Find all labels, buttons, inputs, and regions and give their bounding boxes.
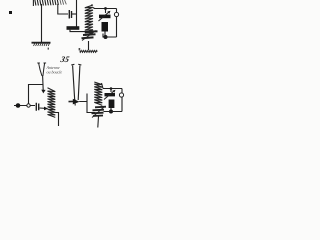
wire: coil L4 down to bottom edge	[97, 117, 100, 128]
wire: bottom of box fig1	[103, 34, 117, 38]
wire: coil L1 right end to capacitor C1	[58, 4, 68, 14]
wire: top of box fig2	[103, 88, 122, 90]
wire: bottom of box fig2	[104, 111, 123, 113]
wire: C2 to tap	[70, 30, 85, 32]
junction dot top2	[110, 87, 113, 90]
wire: branch left and down	[29, 85, 44, 104]
wire: top of box fig1	[94, 8, 117, 10]
wire: antenna A1 down with tap arrow	[42, 76, 45, 91]
wire: block to bottom	[104, 32, 106, 37]
terminal circle 2	[119, 93, 123, 97]
terminal circle (open)	[27, 104, 30, 107]
wire: antenna A2 stub	[74, 99, 76, 106]
wire: coil L3 to bottom	[55, 113, 59, 127]
wire: right side of box fig1	[116, 9, 118, 38]
variable capacitor VC1 (solid bar + arrow)	[99, 15, 111, 19]
coil L4 bottom dense/dark turns	[92, 107, 107, 116]
terminal circle	[114, 12, 118, 16]
ground G1	[32, 42, 51, 44]
wire: arrow to right branch	[79, 94, 95, 113]
ground G2 (hatched bar)	[80, 50, 98, 52]
wire: main vertical from top edge	[76, 0, 78, 27]
stray speck top-right of label	[79, 48, 81, 50]
junction dot (filled)	[16, 103, 21, 108]
coil L3 vertical	[48, 88, 56, 118]
stray speck left of label	[48, 48, 49, 50]
variable tap blob (arrow through bars)	[82, 31, 98, 38]
wire branch down 2	[110, 89, 112, 93]
capacitor C1	[69, 10, 71, 19]
antenna A2 (tall funnel)	[71, 64, 81, 100]
coil L4 vertical	[94, 82, 102, 105]
wire: block2 to bottom	[110, 108, 112, 110]
variable capacitor VC2 (solid bar + arrow)	[105, 93, 116, 96]
junction dot	[104, 7, 107, 10]
wire: right side of box fig2	[121, 89, 123, 112]
wire branch down	[105, 9, 107, 14]
wire: bottom-left horizontal	[14, 105, 35, 107]
svg-text:ou boucle: ou boucle	[47, 70, 63, 75]
wire: tap to ground G2	[88, 41, 90, 50]
antenna A1 (funnel)	[37, 63, 46, 76]
tap arrow 2 (solid)	[69, 100, 75, 102]
wire: C3 to tap arrow	[40, 107, 45, 109]
period dot (page text)	[9, 11, 12, 14]
junction dot bottom 2	[109, 110, 113, 114]
wire: coil L4 top to box2	[102, 83, 104, 89]
wire C1 to main line	[72, 13, 77, 15]
wire: coil L1 down to ground	[41, 4, 43, 42]
capacitor C2 (solid bar)	[67, 26, 80, 30]
solid block (capacitor)	[102, 22, 109, 32]
capacitor C3 plates	[36, 103, 38, 111]
tap arrow	[44, 107, 48, 111]
junction dot bottom	[104, 35, 108, 39]
solid block 2	[109, 100, 115, 109]
coil L2 vertical	[85, 5, 93, 36]
coil L1 horizontal top	[33, 0, 58, 6]
